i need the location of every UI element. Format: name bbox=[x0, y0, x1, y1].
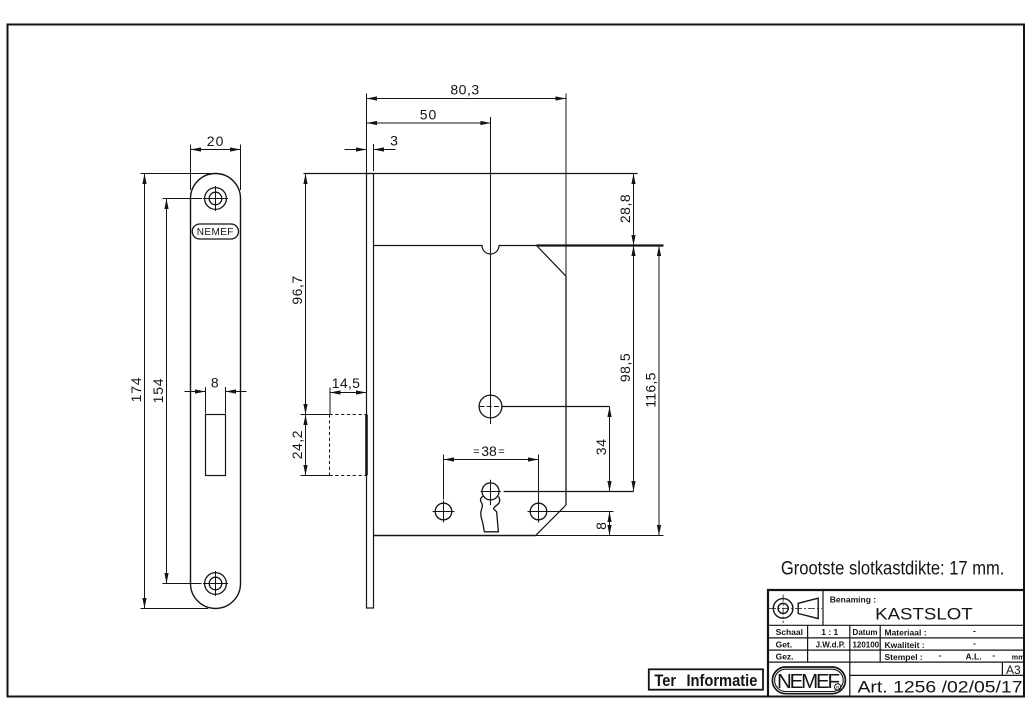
svg-text:Grootste slotkastdikte: 17 mm.: Grootste slotkastdikte: 17 mm. bbox=[781, 559, 1005, 580]
case bottom edge bbox=[374, 535, 536, 537]
svg-text:A3: A3 bbox=[1006, 663, 1021, 677]
case top line with extensions bbox=[304, 173, 638, 175]
dim 14.5 extension bbox=[329, 388, 331, 415]
svg-text:1 : 1: 1 : 1 bbox=[821, 627, 838, 637]
dim 80.3 line bbox=[367, 98, 567, 100]
top screw hole inner circle bbox=[209, 192, 222, 205]
dim 154 line bbox=[166, 199, 168, 584]
dim 24.2 line bbox=[305, 415, 307, 476]
screw line to 8 dim bbox=[550, 511, 614, 513]
NEMEF oval on faceplate bbox=[192, 224, 238, 239]
dim 8 line right view bbox=[609, 512, 611, 536]
svg-text:116,5: 116,5 bbox=[643, 372, 659, 408]
title block outer borders bbox=[768, 590, 1024, 697]
title block horizontal lines bbox=[768, 625, 1024, 662]
faceplate cutout rectangle bbox=[206, 415, 226, 476]
svg-text:mm: mm bbox=[1012, 652, 1025, 661]
dim 116.5 line bbox=[658, 246, 660, 536]
dim 3 outside arrows bbox=[345, 149, 367, 151]
svg-text:174: 174 bbox=[128, 377, 144, 403]
keyhole circle bbox=[482, 483, 499, 500]
NEMEF logo inner stadium bbox=[775, 669, 844, 691]
keyhole crosshair bbox=[481, 480, 502, 505]
svg-text:Get.: Get. bbox=[776, 639, 793, 649]
svg-text:-: - bbox=[939, 650, 942, 660]
dim 80.3 extensions bbox=[367, 94, 567, 277]
dim 24.2 extensions bbox=[301, 415, 330, 476]
vertical centerline through notch down to key circle bbox=[490, 117, 492, 424]
dim 50 line bbox=[367, 122, 491, 124]
NEMEF logo outer stadium bbox=[772, 667, 845, 694]
right small screw crosshair bbox=[528, 501, 550, 523]
horizontal line from key circle to 34 dim bbox=[503, 406, 610, 408]
svg-text:8: 8 bbox=[211, 375, 219, 391]
svg-text:Kwaliteit :: Kwaliteit : bbox=[885, 640, 925, 650]
dim 20 extension lines bbox=[191, 145, 241, 191]
svg-text:Benaming :: Benaming : bbox=[830, 594, 876, 604]
svg-text:Schaal: Schaal bbox=[776, 627, 803, 637]
dim 98.5 line bbox=[633, 246, 635, 492]
dim 174 line bbox=[144, 174, 146, 609]
thick pocket segment on strip left edge bbox=[365, 415, 368, 476]
projection symbol centerlines bbox=[769, 607, 822, 609]
svg-text:96,7: 96,7 bbox=[289, 275, 305, 304]
svg-text:24,2: 24,2 bbox=[289, 430, 305, 459]
top screw hole crosshair bbox=[203, 186, 228, 211]
svg-text:NEMEF: NEMEF bbox=[777, 670, 840, 693]
svg-text:120100: 120100 bbox=[852, 640, 879, 649]
mortise pocket dashed box bbox=[330, 415, 367, 476]
internal shoulder line left of vertex with notch bbox=[374, 246, 538, 255]
svg-text:-: - bbox=[973, 638, 976, 648]
Ter informatie box bbox=[649, 669, 763, 689]
svg-text:28,8: 28,8 bbox=[617, 194, 633, 223]
svg-text:Art. 1256 /02/05/17: Art. 1256 /02/05/17 bbox=[858, 679, 1023, 697]
dim 8 line with outside arrows bbox=[185, 391, 206, 393]
dim 8 extension lines bbox=[206, 387, 226, 414]
svg-text:20: 20 bbox=[207, 133, 225, 149]
A3 row line bbox=[850, 674, 1024, 676]
dim 38 line bbox=[444, 459, 539, 461]
key follower circle bbox=[479, 395, 502, 418]
NEMEF logo R circle bbox=[835, 684, 841, 690]
dim 38 extensions bbox=[444, 455, 539, 503]
bottom screw hole inner circle bbox=[209, 577, 222, 590]
svg-text:KASTSLOT: KASTSLOT bbox=[875, 606, 973, 624]
projection symbol cone bbox=[798, 598, 818, 618]
keyhole line to 98.5 dim bbox=[504, 491, 634, 493]
bottom screw hole crosshair bbox=[203, 571, 228, 596]
dim 14.5 line bbox=[330, 392, 367, 394]
svg-text:3: 3 bbox=[390, 132, 398, 148]
right small screw circle bbox=[530, 503, 547, 520]
top screw hole outer circle bbox=[205, 188, 227, 210]
svg-text:Ter Informatie: Ter Informatie bbox=[654, 672, 757, 690]
svg-text:-: - bbox=[973, 626, 976, 636]
top right diagonal bbox=[537, 246, 566, 276]
dim 3 extension bbox=[373, 144, 375, 171]
title block vertical lines bbox=[808, 590, 1003, 697]
left small screw crosshair bbox=[433, 501, 455, 523]
key circle horizontal centerline dashes bbox=[480, 406, 503, 408]
svg-text:Datum: Datum bbox=[853, 628, 878, 637]
dim 34 line bbox=[609, 407, 611, 492]
svg-text:8: 8 bbox=[593, 522, 609, 530]
bottom screw hole outer circle bbox=[205, 573, 227, 595]
svg-text:34: 34 bbox=[593, 438, 609, 455]
svg-text:50: 50 bbox=[420, 106, 438, 122]
svg-text:80,3: 80,3 bbox=[450, 82, 479, 98]
svg-text:NEMEF: NEMEF bbox=[197, 227, 234, 238]
dim 154 extension lines bbox=[163, 199, 203, 584]
bottom extension line to the right bbox=[536, 535, 664, 537]
svg-text:-: - bbox=[992, 650, 995, 660]
internal shoulder line thick right part bbox=[537, 244, 664, 246]
keyhole key profile shank bbox=[481, 496, 500, 532]
dim 20 line bbox=[191, 149, 241, 151]
svg-text:=38=: =38= bbox=[473, 443, 504, 459]
faceplate strip edge-on bbox=[367, 174, 374, 609]
svg-text:98,5: 98,5 bbox=[617, 353, 633, 382]
case right edge bbox=[565, 276, 567, 505]
dim 28.8 line bbox=[633, 174, 635, 246]
svg-text:J.W.d.P.: J.W.d.P. bbox=[816, 640, 846, 649]
projection symbol circle bbox=[773, 599, 793, 619]
svg-text:14,5: 14,5 bbox=[332, 375, 360, 391]
left small screw circle bbox=[435, 503, 452, 520]
svg-text:Materiaal :: Materiaal : bbox=[885, 628, 927, 638]
dim 174 extension lines bbox=[141, 174, 216, 609]
svg-text:Stempel :: Stempel : bbox=[885, 652, 923, 662]
bottom right diagonal bbox=[536, 505, 566, 535]
svg-text:154: 154 bbox=[150, 378, 166, 404]
svg-text:Gez.: Gez. bbox=[776, 652, 794, 662]
faceplate outline bbox=[191, 174, 241, 609]
dim 96.7 line bbox=[305, 174, 307, 415]
svg-text:A.L.: A.L. bbox=[966, 652, 982, 662]
